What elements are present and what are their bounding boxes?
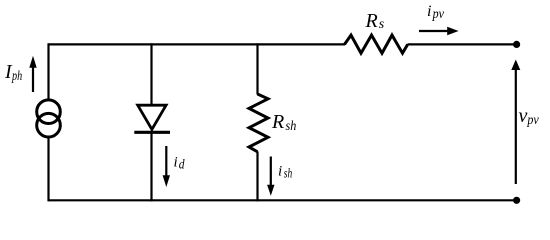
wire diode branch bottom xyxy=(150,132,152,201)
current source Iph (two overlapping circles) xyxy=(37,100,61,137)
svg-text:R: R xyxy=(365,10,378,32)
svg-text:pv: pv xyxy=(527,113,540,128)
svg-text:d: d xyxy=(179,157,186,172)
node terminal top right xyxy=(513,41,520,48)
arrow Iph (upward current arrow) xyxy=(29,56,36,92)
wire left vertical (below current source) xyxy=(47,136,49,201)
svg-text:s: s xyxy=(379,17,385,32)
resistor Rsh (vertical zigzag) xyxy=(249,94,268,152)
wire diode branch top xyxy=(150,43,152,106)
arrow vpv (voltage arrow, upward) xyxy=(511,60,520,185)
arrow id (diode current, downward) xyxy=(163,146,170,187)
node terminal bottom right xyxy=(513,197,520,204)
wire bottom bus xyxy=(49,199,517,201)
wire Rsh branch top xyxy=(256,43,258,94)
svg-text:sh: sh xyxy=(286,119,297,134)
svg-text:ph: ph xyxy=(11,69,22,84)
diode D (triangle + cathode bar) xyxy=(134,105,170,132)
wire left vertical (above current source) xyxy=(47,43,49,101)
svg-text:R: R xyxy=(271,111,284,133)
wire top bus (right of Rs) xyxy=(408,43,517,45)
svg-text:v: v xyxy=(519,105,528,127)
wire top bus (left of Rs) xyxy=(49,43,346,45)
arrow ish (shunt current, downward) xyxy=(267,157,274,196)
wire Rsh branch bottom xyxy=(256,152,258,202)
svg-text:sh: sh xyxy=(284,167,292,182)
resistor Rs (horizontal zigzag) xyxy=(345,35,408,53)
arrow ipv (output current, rightward) xyxy=(419,27,459,35)
svg-text:i: i xyxy=(278,164,282,180)
svg-text:i: i xyxy=(427,3,431,20)
svg-text:i: i xyxy=(174,155,178,171)
svg-text:pv: pv xyxy=(432,7,445,22)
